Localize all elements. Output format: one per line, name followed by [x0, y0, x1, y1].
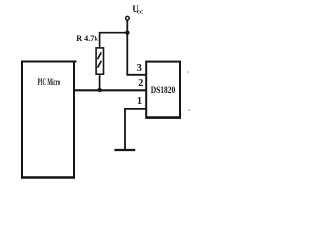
speck artifact	[188, 71, 190, 73]
IC U2 DS1820 box	[146, 62, 180, 118]
wire junction to resistor top	[100, 33, 128, 48]
IC U1 PIC Micro box	[21, 62, 77, 178]
power terminal Ucc circle	[126, 16, 130, 20]
junction dot at Ucc wire / resistor top wire	[125, 31, 129, 35]
wire Ucc terminal down to DS1820 pin 3	[127, 20, 146, 74]
resistor R 4.7k body	[96, 48, 103, 74]
svg-text:DS1820: DS1820	[151, 85, 176, 95]
svg-text:R 4.7: R 4.7	[76, 34, 94, 43]
svg-text:PIC Micro: PIC Micro	[38, 77, 61, 88]
svg-text:cc: cc	[137, 8, 143, 15]
wire PIC Micro to DS1820 pin 2 (data)	[74, 89, 146, 91]
ground symbol	[115, 149, 136, 151]
svg-text:2: 2	[138, 78, 143, 89]
wire DS1820 pin 1 to ground	[125, 109, 146, 150]
speck artifact	[188, 109, 190, 111]
wire resistor bottom to data wire	[99, 74, 101, 90]
net label Ucc	[132, 4, 143, 15]
svg-text:1: 1	[137, 96, 142, 107]
value label R 4.7k	[76, 34, 98, 43]
svg-text:3: 3	[137, 63, 142, 74]
junction dot on data wire	[97, 88, 101, 92]
